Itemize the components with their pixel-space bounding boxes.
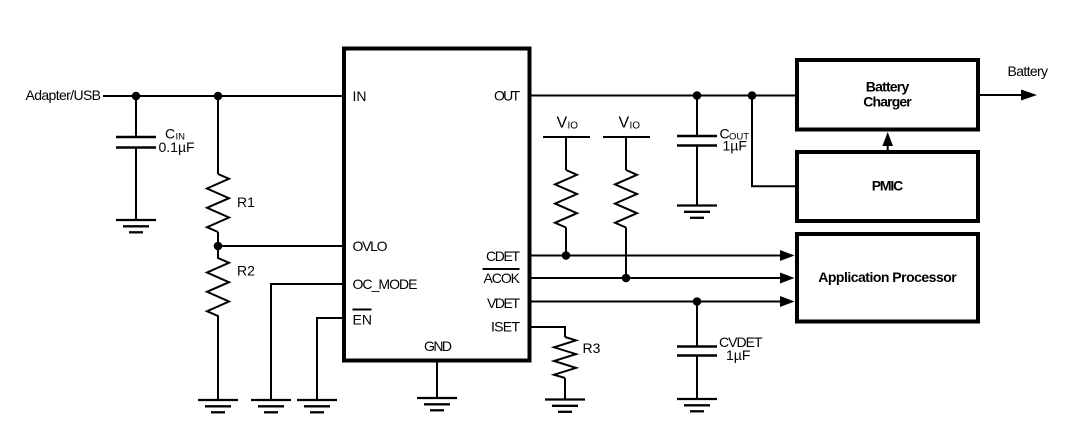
- svg-text:R2: R2: [237, 263, 255, 279]
- svg-text:Application Processor: Application Processor: [818, 269, 957, 285]
- ground (C_IN): [116, 220, 156, 232]
- resistor (VIO pull-up 1): [555, 170, 577, 228]
- svg-text:Battery: Battery: [866, 79, 910, 95]
- block PMIC: [797, 152, 978, 221]
- wire EN to ground: [317, 318, 344, 400]
- resistor R1: [207, 174, 229, 232]
- wire R1 bottom to OVLO node: [217, 232, 219, 246]
- svg-text:IO: IO: [630, 121, 641, 132]
- resistor R3: [554, 337, 576, 378]
- label C_IN value: [159, 126, 195, 156]
- svg-text:R1: R1: [237, 194, 255, 210]
- wire OVLO net to IC pin: [218, 245, 344, 247]
- wire OC_MODE to ground: [271, 284, 344, 400]
- svg-text:OUT: OUT: [494, 88, 520, 104]
- wire R3 to ground: [564, 378, 566, 400]
- svg-text:Battery: Battery: [1008, 63, 1049, 79]
- svg-text:IN: IN: [353, 88, 367, 104]
- op-amp U1 (main IC box): [344, 49, 530, 361]
- label CVDET value: [719, 334, 763, 363]
- label C_OUT value: [720, 126, 750, 154]
- svg-text:GND: GND: [424, 338, 452, 354]
- ground (CVDET): [677, 399, 717, 411]
- power rail VIO 2: [603, 115, 650, 171]
- junction at CIN tap: [132, 92, 141, 101]
- junction CDET / pull-up 1: [562, 251, 571, 260]
- svg-text:Adapter/USB: Adapter/USB: [26, 87, 102, 103]
- svg-text:IO: IO: [568, 121, 579, 132]
- wire OUT net (IC OUT to Battery Charger): [528, 95, 797, 97]
- capacitor C_IN: [116, 96, 156, 220]
- junction at PMIC tap: [748, 91, 757, 100]
- junction VDET / CVDET: [693, 297, 702, 306]
- junction ACOK / pull-up 2: [622, 274, 631, 283]
- wire PMIC to Battery Charger arrow: [882, 132, 893, 150]
- wire OUT to PMIC: [752, 96, 797, 187]
- svg-text:CDET: CDET: [486, 248, 520, 264]
- ground (R2): [198, 400, 238, 412]
- resistor (VIO pull-up 2): [615, 170, 637, 228]
- power rail VIO 1: [543, 115, 590, 171]
- wire R1 top lead: [217, 96, 219, 174]
- block Battery Charger: [797, 60, 978, 130]
- junction at C_OUT tap: [693, 91, 702, 100]
- svg-text:V: V: [619, 115, 630, 132]
- svg-text:1µF: 1µF: [723, 138, 747, 154]
- svg-text:1µF: 1µF: [726, 347, 750, 363]
- pin EN label with overline: [353, 310, 372, 328]
- wire IN net (Adapter/USB to IC pin IN): [103, 95, 344, 97]
- svg-text:OVLO: OVLO: [353, 238, 388, 254]
- svg-text:R3: R3: [583, 340, 601, 356]
- ground (IC GND): [417, 398, 457, 410]
- svg-text:ISET: ISET: [491, 319, 520, 335]
- wire pull-up 1 to CDET net: [565, 228, 567, 256]
- svg-text:Charger: Charger: [863, 94, 912, 110]
- wire pull-up 2 to ACOK net: [625, 228, 627, 279]
- ground (R3): [545, 400, 585, 412]
- wire CDET net to Application Processor: [528, 255, 782, 257]
- svg-text:OC_MODE: OC_MODE: [353, 276, 418, 292]
- wire VDET net to Application Processor: [528, 301, 782, 303]
- svg-text:VDET: VDET: [487, 295, 520, 311]
- ground (C_OUT): [677, 206, 717, 218]
- svg-text:0.1µF: 0.1µF: [159, 139, 195, 155]
- capacitor CVDET: [677, 302, 717, 400]
- arrowhead CDET: [780, 250, 795, 261]
- wire ACOK net to Application Processor: [528, 277, 782, 279]
- arrowhead VDET: [780, 296, 795, 307]
- ground (OC_MODE): [251, 400, 291, 412]
- wire Battery output arrow: [980, 90, 1037, 101]
- resistor R2: [207, 246, 229, 400]
- wire ISET to R3: [528, 327, 565, 337]
- pin ACOK label with overline: [483, 269, 521, 286]
- capacitor C_OUT: [677, 96, 717, 206]
- svg-text:V: V: [557, 115, 568, 132]
- svg-text:ACOK: ACOK: [484, 270, 521, 286]
- wire GND pin to ground: [436, 360, 438, 398]
- svg-text:PMIC: PMIC: [872, 178, 904, 194]
- ground (EN): [297, 400, 337, 412]
- arrowhead ACOK: [780, 273, 795, 284]
- block Application Processor: [797, 234, 978, 322]
- svg-text:EN: EN: [353, 312, 372, 328]
- junction at R1 tap: [214, 92, 223, 101]
- node OVLO junction: [214, 242, 223, 251]
